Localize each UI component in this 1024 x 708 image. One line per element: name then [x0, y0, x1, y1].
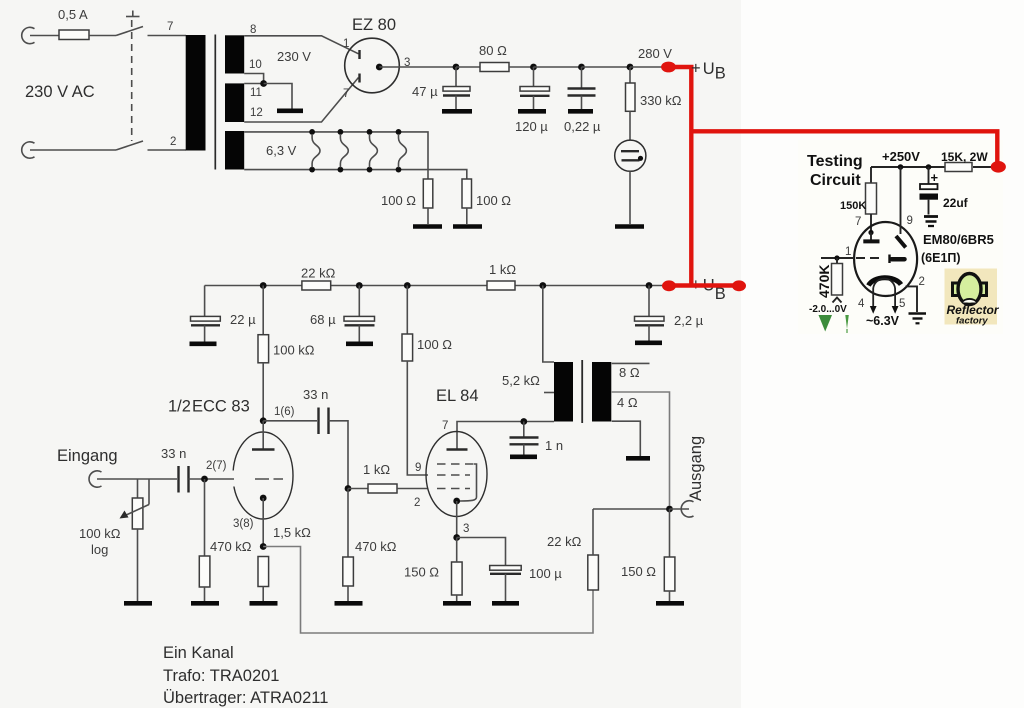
label 6E1P	[921, 251, 961, 265]
svg-text:470K: 470K	[816, 265, 832, 298]
label 6,3 V	[266, 143, 297, 158]
label Eingang	[57, 447, 118, 465]
B+ rail second	[205, 285, 302, 287]
red B+ lower segment	[668, 283, 739, 287]
svg-text:100 kΩ: 100 kΩ	[79, 526, 121, 541]
heater line bottom	[244, 170, 467, 179]
svg-text:8: 8	[250, 24, 256, 36]
svg-text:5,2 kΩ: 5,2 kΩ	[502, 373, 540, 388]
wire +250V rail	[871, 166, 945, 168]
label Ein Kanal	[163, 644, 234, 662]
wire 22k to output node	[593, 508, 670, 510]
svg-text:2(7): 2(7)	[206, 460, 227, 472]
transformer T1 secondary winding 230V lower	[225, 83, 244, 122]
wire cathode to feedback	[263, 547, 593, 634]
svg-text:1/2 ECC 83: 1/2 ECC 83	[168, 398, 250, 416]
svg-text:3(8): 3(8)	[233, 518, 254, 530]
svg-text:1 kΩ: 1 kΩ	[489, 262, 516, 277]
output transformer core	[581, 360, 583, 423]
ground 470k EL84	[335, 601, 363, 606]
resistor 1k rail	[487, 262, 516, 290]
output jack	[670, 501, 694, 517]
ground 150R load	[656, 601, 684, 606]
node 22uf top	[926, 164, 932, 170]
EM80 triode anode pin 7	[855, 216, 880, 241]
EZ80 anode 1	[343, 38, 360, 59]
EZ80 anode 2	[343, 74, 360, 101]
resistor 100R screen	[402, 286, 452, 476]
ground 100u	[492, 601, 519, 606]
ground 150R cathode	[443, 601, 471, 606]
schematic paper area	[0, 0, 741, 708]
resistor 100k dropper	[258, 286, 315, 421]
node 330k	[627, 64, 634, 71]
svg-text:150 Ω: 150 Ω	[621, 564, 656, 579]
EL84 cathode	[453, 498, 460, 538]
heater loop 2	[338, 129, 349, 173]
wire EL84 anode to OPT	[457, 422, 554, 450]
node EL84 cathode pin 3	[453, 523, 469, 541]
resistor 1k grid stopper	[348, 462, 428, 493]
resistor 100R heater 2	[462, 179, 511, 224]
wire cap to grid node	[189, 478, 235, 480]
svg-text:Testing: Testing	[807, 153, 863, 170]
node 1n	[520, 418, 527, 425]
wire fuse to switch	[89, 35, 116, 37]
wire mains N to switch	[30, 149, 116, 151]
heater loop 3	[367, 129, 378, 173]
ground neon	[615, 224, 644, 229]
svg-text:100 kΩ: 100 kΩ	[273, 343, 315, 358]
svg-text:150 Ω: 150 Ω	[404, 565, 439, 580]
red terminal B+ rail right	[732, 280, 746, 291]
svg-text:470 kΩ: 470 kΩ	[210, 539, 252, 554]
node 100k dropper	[260, 282, 267, 289]
switch link dashed	[126, 11, 140, 142]
ground 22u	[190, 341, 217, 346]
neon lamp	[615, 111, 646, 224]
label Uebertrager	[163, 689, 328, 707]
EL84 g2 dashed	[415, 462, 470, 475]
svg-text:+: +	[691, 60, 701, 78]
ECC83 cathode	[260, 495, 267, 547]
node ECC83 grid 2(7)	[201, 460, 227, 482]
transformer T1 heater winding 6,3V	[225, 131, 244, 170]
fuse F1 0,5 A	[58, 7, 89, 40]
svg-text:100 Ω: 100 Ω	[417, 337, 452, 352]
pin 11 wire	[244, 84, 263, 100]
svg-text:11: 11	[250, 87, 262, 99]
svg-text:10: 10	[249, 59, 262, 71]
svg-text:7: 7	[855, 216, 861, 228]
wire coupling cap to EL84 grid node	[329, 421, 349, 489]
wire switch to pin 7	[148, 21, 187, 36]
wire 47u node to 80R	[456, 66, 480, 68]
svg-text:log: log	[91, 542, 108, 557]
svg-text:Trafo: TRA0201: Trafo: TRA0201	[163, 667, 279, 685]
label Trafo	[163, 667, 279, 685]
ground heater 1	[413, 224, 442, 229]
heater loop 1	[309, 129, 320, 173]
green pin marker	[845, 315, 849, 333]
EZ80 cathode node	[376, 64, 383, 71]
resistor 22k feedback	[547, 509, 598, 590]
wire mains L to fuse	[30, 35, 59, 37]
transformer T1 core	[214, 35, 216, 170]
4 Ohm tap	[612, 392, 670, 506]
svg-text:1: 1	[845, 246, 851, 258]
wire ECC83 anode to coupling cap	[263, 420, 317, 422]
ground center tap	[277, 109, 303, 114]
svg-text:factory: factory	[956, 316, 988, 327]
label Testing Circuit	[807, 153, 863, 189]
svg-text:EZ 80: EZ 80	[352, 16, 396, 34]
svg-text:0,22 µ: 0,22 µ	[564, 119, 601, 134]
pin 10 wire	[244, 59, 263, 84]
svg-text:100 Ω: 100 Ω	[476, 193, 511, 208]
label +UB top	[691, 60, 726, 83]
svg-text:4: 4	[858, 298, 865, 310]
svg-text:7: 7	[343, 88, 349, 100]
ground 470k grid	[191, 601, 219, 606]
wire 0,22u to 330k node	[582, 66, 631, 68]
EM80 grid pin 1	[821, 246, 905, 263]
svg-text:47 µ: 47 µ	[412, 84, 438, 99]
EM80 target pin 9	[896, 167, 913, 247]
wire node to red terminal	[630, 66, 664, 68]
wire 80R to 120u node	[509, 66, 534, 68]
svg-text:1 n: 1 n	[545, 438, 563, 453]
svg-text:5: 5	[899, 298, 905, 310]
label EL 84	[436, 387, 479, 405]
label EZ 80	[352, 16, 396, 34]
rectifier tube V1 EZ80 envelope	[345, 38, 400, 93]
capacitor 33n coupling	[303, 387, 329, 434]
red B+ branch to testing circuit	[691, 131, 997, 163]
testing circuit background	[798, 140, 1003, 334]
capacitor 0,22u	[564, 67, 601, 134]
svg-text:15K, 2W: 15K, 2W	[941, 150, 988, 164]
ECC83 grid dashed	[255, 478, 283, 480]
svg-text:6,3 V: 6,3 V	[266, 143, 297, 158]
svg-text:1: 1	[343, 38, 349, 50]
svg-text:68 µ: 68 µ	[310, 312, 336, 327]
wire input jack to cap	[97, 478, 177, 480]
switch pole 2	[116, 141, 143, 150]
svg-text:Ein Kanal: Ein Kanal	[163, 644, 234, 662]
potentiometer 100k log	[79, 479, 149, 601]
ground 47u	[442, 109, 472, 114]
svg-text:9: 9	[907, 215, 913, 227]
wire 120u to 0,22u node	[534, 66, 582, 68]
label 230 V secondary	[277, 49, 311, 64]
heater line top	[244, 132, 428, 179]
svg-text:2,2 µ: 2,2 µ	[674, 313, 704, 328]
label -2.0...0V	[809, 304, 847, 315]
node 68u	[356, 282, 363, 289]
svg-text:U: U	[703, 60, 715, 78]
svg-text:12: 12	[250, 107, 263, 119]
capacitor 22uf	[920, 167, 969, 215]
resistor 150R load	[621, 509, 675, 601]
label 1/2 ECC 83	[168, 398, 250, 416]
label +UB lower	[691, 276, 726, 303]
capacitor 2,2u	[635, 282, 704, 340]
transformer T1 primary winding	[186, 35, 206, 151]
svg-text:33 n: 33 n	[303, 387, 328, 402]
ground 120u	[518, 109, 546, 114]
red terminal testing	[991, 161, 1006, 173]
ground 2,2u	[635, 340, 662, 345]
svg-text:1,5 kΩ: 1,5 kΩ	[273, 525, 311, 540]
node ECC83 cathode junction 3(8)	[233, 518, 267, 550]
svg-text:Circuit: Circuit	[810, 172, 861, 189]
Reflector factory logo	[945, 269, 1000, 327]
node output	[666, 506, 673, 513]
label 280 V	[638, 46, 672, 61]
node pins 10-11	[260, 80, 267, 87]
wire center tap to ground	[264, 84, 292, 109]
input jack	[89, 471, 101, 487]
svg-text:120 µ: 120 µ	[515, 119, 548, 134]
wire rail 22k to 1k	[331, 285, 487, 287]
capacitor 22u	[191, 286, 257, 342]
capacitor 47u	[412, 67, 470, 109]
svg-text:22 µ: 22 µ	[230, 312, 256, 327]
svg-text:4 Ω: 4 Ω	[617, 395, 638, 410]
8 Ohm tap	[612, 363, 650, 380]
EM80 fluorescent screen	[869, 278, 902, 286]
capacitor 120u	[515, 67, 550, 134]
node 0,22u	[578, 64, 585, 71]
resistor 470k EL84 grid	[343, 489, 397, 602]
svg-text:B: B	[715, 285, 726, 303]
label 5,2 kOhm	[502, 373, 540, 388]
wire rail 1k to red node	[515, 285, 664, 287]
svg-text:230 V AC: 230 V AC	[25, 83, 95, 101]
label EM80/6BR5	[923, 232, 994, 247]
red terminal B+ rail left	[662, 280, 676, 291]
triode ECC83 envelope	[231, 432, 294, 519]
red terminal 280V	[661, 62, 676, 73]
ground 0,22u	[568, 109, 593, 114]
svg-text:Ausgang: Ausgang	[687, 436, 705, 501]
svg-text:330 kΩ: 330 kΩ	[640, 93, 682, 108]
pentode EL84 envelope	[426, 432, 487, 517]
svg-text:100 Ω: 100 Ω	[381, 193, 416, 208]
node 100R screen	[404, 282, 411, 289]
ground secondary	[626, 456, 650, 461]
svg-text:22 kΩ: 22 kΩ	[547, 534, 582, 549]
red B+ wire main	[670, 67, 691, 286]
svg-text:EL 84: EL 84	[436, 387, 479, 405]
svg-text:7: 7	[167, 21, 173, 33]
mains input jack top	[22, 27, 35, 43]
capacitor 100u cathode	[457, 538, 563, 602]
svg-text:0,5 A: 0,5 A	[58, 7, 88, 22]
svg-text:230 V: 230 V	[277, 49, 311, 64]
svg-text:7: 7	[442, 420, 448, 432]
resistor 100R heater 1	[381, 179, 433, 224]
EM80 cathode dome pins 4 5	[858, 279, 905, 314]
svg-text:100 µ: 100 µ	[529, 566, 562, 581]
resistor 470K grid	[816, 258, 843, 303]
wire switch to pin 2	[148, 136, 187, 150]
wire EZ80 cathode to 47u	[379, 57, 456, 69]
resistor 150R cathode	[404, 538, 462, 602]
svg-text:B: B	[715, 65, 726, 83]
wire B+ to OPT primary top	[543, 286, 554, 363]
svg-text:150K: 150K	[840, 200, 866, 212]
resistor 470k grid	[199, 479, 252, 601]
svg-text:80 Ω: 80 Ω	[479, 43, 507, 58]
resistor 15K 2W	[941, 150, 991, 172]
capacitor 1n	[510, 422, 564, 455]
svg-text:+250V: +250V	[882, 149, 920, 164]
resistor 330k	[626, 67, 682, 111]
node ECC83 anode pin 1(6)	[260, 406, 295, 424]
svg-text:22uf: 22uf	[943, 196, 969, 210]
ground pot	[124, 601, 152, 606]
label Ausgang	[687, 436, 705, 501]
pin 12 wire	[244, 78, 358, 123]
EL84 g3 to cathode link	[460, 464, 477, 501]
ground heater 2	[453, 224, 482, 229]
EM80 tube envelope	[854, 222, 917, 296]
node 150K top	[898, 164, 904, 170]
secondary common to ground	[612, 421, 641, 456]
svg-text:22 kΩ: 22 kΩ	[301, 266, 336, 281]
OPT primary tap stub	[544, 392, 554, 394]
label 230 V AC	[25, 83, 95, 101]
ground 22uf	[924, 217, 938, 227]
label ~6.3V	[866, 314, 900, 328]
svg-text:(6Е1П): (6Е1П)	[921, 251, 961, 265]
node 47u	[453, 64, 460, 71]
svg-text:2: 2	[170, 136, 176, 148]
EL84 g3 dashed	[437, 463, 474, 465]
EL84 g1 dashed	[414, 489, 470, 510]
svg-text:9: 9	[415, 462, 421, 474]
svg-text:Eingang: Eingang	[57, 447, 118, 465]
svg-text:+: +	[931, 170, 939, 185]
node EL84 grid	[345, 485, 352, 492]
heater loop 4	[396, 129, 407, 173]
mains input jack bottom	[22, 142, 35, 158]
resistor 80 Ohm	[479, 43, 509, 72]
svg-text:-2.0...0V: -2.0...0V	[809, 304, 847, 315]
svg-text:8 Ω: 8 Ω	[619, 365, 640, 380]
svg-text:Übertrager: ATRA0211: Übertrager: ATRA0211	[163, 689, 328, 707]
capacitor 33n input	[161, 446, 189, 493]
resistor 150K	[840, 167, 877, 233]
svg-text:1(6): 1(6)	[274, 406, 295, 418]
svg-text:33 n: 33 n	[161, 446, 186, 461]
node 120u	[530, 64, 537, 71]
svg-text:3: 3	[463, 523, 469, 535]
ground 1n	[510, 454, 537, 459]
svg-text:EM80/6BR5: EM80/6BR5	[923, 232, 994, 247]
svg-text:2: 2	[919, 276, 925, 288]
svg-text:1 kΩ: 1 kΩ	[363, 462, 390, 477]
resistor 1,5k cathode	[258, 525, 311, 601]
node OPT primary	[539, 282, 546, 289]
EL84 anode	[442, 420, 468, 450]
svg-text:2: 2	[414, 497, 420, 509]
capacitor 68u	[310, 286, 375, 342]
EM80 cathode pin 2 to ground	[906, 276, 927, 323]
output transformer secondary winding	[592, 362, 611, 422]
label +250V	[882, 149, 920, 164]
svg-text:~6.3V: ~6.3V	[866, 314, 900, 328]
resistor 22k rail	[301, 266, 336, 291]
ECC83 anode	[252, 421, 275, 450]
ground 1,5k	[250, 601, 278, 606]
ground 68u	[346, 341, 373, 346]
svg-text:280 V: 280 V	[638, 46, 672, 61]
svg-text:470 kΩ: 470 kΩ	[355, 539, 397, 554]
transformer T1 secondary winding 230V upper	[225, 35, 244, 73]
switch pole 1	[116, 27, 143, 36]
green arrow marker	[819, 315, 833, 332]
output transformer primary winding	[554, 362, 573, 422]
pin 8 wire	[244, 24, 358, 54]
